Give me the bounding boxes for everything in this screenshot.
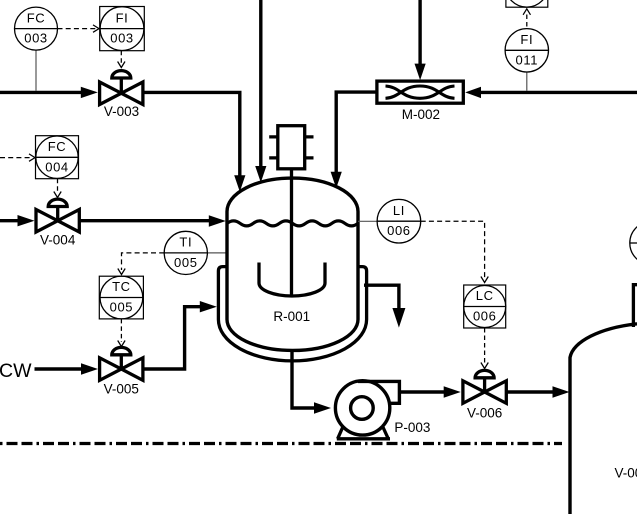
tank V-001 (partial at right edge)	[570, 285, 637, 514]
wire: pipe V-005 to reactor jacket	[143, 301, 217, 369]
wire: reactor bottom outlet to P-003	[292, 351, 331, 414]
svg-text:LI: LI	[393, 203, 405, 218]
svg-text:005: 005	[174, 255, 198, 270]
control valve V-004	[36, 199, 79, 247]
svg-text:V-005: V-005	[104, 381, 139, 396]
instrument LI-006	[358, 199, 421, 243]
svg-text:003: 003	[24, 31, 48, 46]
instrument LC-006	[464, 285, 506, 328]
instrument FI-011	[505, 29, 548, 91]
svg-text:R-001: R-001	[273, 309, 310, 324]
instrument TC-005	[99, 276, 143, 319]
signal: LI-006 to LC-006	[421, 221, 489, 282]
svg-text:FI: FI	[520, 32, 533, 47]
wire: P-003 discharge to V-006	[399, 386, 460, 397]
control valve V-005	[100, 347, 143, 396]
wire: pipe V-003 to reactor top nozzle	[143, 92, 246, 191]
svg-text:V-004: V-004	[40, 233, 76, 248]
svg-text:003: 003	[110, 31, 134, 46]
signal: FI-011 up to shared display (clipped at top)	[523, 9, 530, 29]
wire: feed pipe into V-004	[0, 215, 35, 226]
signal: LC-006 to V-006 actuator	[481, 328, 488, 369]
wire: feed pipe into V-003	[0, 87, 98, 98]
svg-text:LC: LC	[476, 288, 494, 303]
wire: CW pipe into V-005	[35, 363, 99, 374]
wire: pipe V-004 to reactor	[79, 215, 226, 226]
svg-text:FC: FC	[27, 10, 46, 25]
wire: feed drop into M-002	[415, 0, 426, 80]
svg-text:011: 011	[516, 52, 539, 67]
wire: feed drop line into reactor top (center)	[255, 0, 266, 183]
instrument FI-003 (shared display)	[100, 7, 145, 51]
reactor liquid level wavy line	[227, 221, 358, 226]
agitator motor M on nozzle	[269, 126, 313, 169]
svg-text:006: 006	[387, 223, 411, 238]
signal: FI-003 to V-003 actuator	[118, 51, 125, 68]
svg-text:CW: CW	[0, 360, 32, 382]
instrument square at top edge (partial)	[505, 0, 548, 7]
svg-text:P-003: P-003	[394, 420, 430, 435]
svg-text:FI: FI	[116, 10, 129, 25]
signal: FC-004 to V-004 actuator	[54, 179, 61, 198]
instrument circle at right edge (partial)	[630, 221, 637, 264]
control valve V-003	[100, 71, 143, 119]
reactor R-001 vessel shell	[227, 178, 358, 350]
control valve V-006	[463, 370, 506, 420]
wire: jacket vent to drain arrow	[364, 285, 405, 327]
svg-text:FC: FC	[48, 139, 67, 154]
battery limit line	[0, 442, 562, 445]
wire: pipe M-002 to reactor top right	[331, 92, 377, 188]
signal: FC-003 to FI-003	[58, 25, 100, 32]
instrument FC-004	[36, 136, 79, 179]
wire: pipe from right into M-002	[465, 87, 637, 98]
svg-text:004: 004	[45, 159, 69, 174]
svg-text:M-002: M-002	[402, 107, 440, 122]
svg-text:V-003: V-003	[104, 104, 139, 119]
static mixer M-002	[377, 81, 463, 122]
pump P-003	[335, 381, 430, 439]
wire: V-006 to tank	[506, 386, 569, 397]
svg-text:TC: TC	[112, 279, 131, 294]
svg-text:V-001: V-001	[615, 466, 637, 481]
svg-text:TI: TI	[179, 235, 192, 250]
signal: TI-005 to TC-005	[118, 253, 164, 275]
instrument FC-003	[15, 7, 58, 91]
svg-text:V-006: V-006	[467, 405, 502, 420]
reactor R-001 jacket	[218, 267, 366, 361]
instrument TI-005	[164, 231, 227, 274]
signal: TC-005 to V-005 actuator	[118, 319, 125, 347]
svg-text:006: 006	[473, 309, 497, 324]
agitator impeller	[259, 263, 325, 297]
svg-text:005: 005	[110, 300, 134, 315]
agitator shaft	[290, 169, 293, 295]
signal: into FC-004 from left	[0, 154, 35, 161]
